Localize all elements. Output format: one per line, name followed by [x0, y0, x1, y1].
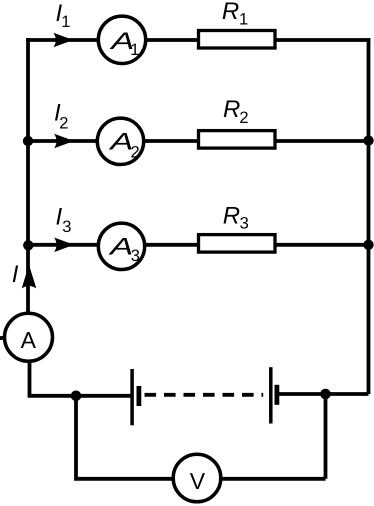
current arrow I1	[53, 33, 73, 48]
svg-text:R: R	[223, 202, 240, 229]
ammeter A3 circle	[98, 223, 144, 269]
label I2	[54, 100, 68, 133]
junction node B bottom left	[71, 391, 82, 402]
svg-text:2: 2	[59, 114, 68, 132]
label R3	[223, 202, 249, 232]
battery G left cell long plate	[130, 369, 134, 425]
svg-text:R: R	[222, 0, 239, 25]
battery G left cell short plate	[136, 386, 141, 406]
current arrow I2	[54, 134, 74, 149]
label R2	[223, 96, 249, 127]
resistor R2 body	[199, 131, 276, 149]
svg-text:3: 3	[131, 247, 140, 265]
svg-text:1: 1	[61, 13, 70, 31]
wire top rail branch1	[26, 38, 370, 42]
battery G right cell long plate	[269, 367, 273, 423]
ammeter A1 circle	[98, 16, 145, 63]
junction node branch2 left	[23, 136, 33, 146]
label I3	[56, 203, 72, 236]
label R1	[222, 0, 248, 28]
battery G right cell short plate	[274, 385, 279, 405]
wire battery right terminal to right bus	[277, 392, 369, 396]
svg-text:3: 3	[62, 218, 71, 236]
wire right vertical bus	[367, 38, 371, 394]
svg-text:1: 1	[239, 10, 248, 28]
ammeter A2 circle	[97, 118, 143, 164]
svg-text:3: 3	[240, 214, 249, 232]
svg-text:1: 1	[130, 41, 139, 59]
svg-text:R: R	[223, 96, 240, 123]
junction node branch3 right	[363, 240, 373, 250]
label I1	[56, 0, 71, 31]
wire voltmeter rail up to node C	[324, 394, 328, 479]
svg-text:A: A	[107, 233, 133, 260]
voltmeter V circle	[173, 454, 221, 502]
wire left vertical bus	[26, 38, 30, 316]
svg-text:V: V	[190, 468, 206, 494]
svg-text:2: 2	[131, 143, 140, 161]
label A3	[107, 233, 139, 265]
svg-text:I: I	[12, 261, 19, 288]
junction node branch3 left	[23, 240, 33, 250]
junction node branch2 right	[363, 135, 373, 145]
wire ammeter A to bottom-left corner	[30, 358, 134, 396]
resistor R1 body	[199, 31, 276, 49]
wire branch3 horizontal	[28, 243, 369, 247]
svg-text:2: 2	[239, 109, 248, 127]
ammeter A circle	[5, 313, 53, 361]
svg-text:A: A	[21, 327, 37, 353]
wire node B down to voltmeter rail	[76, 396, 326, 479]
label A1	[108, 28, 139, 59]
wire battery inter-cell dashed link	[145, 393, 264, 397]
wire branch2 horizontal	[28, 139, 369, 143]
current arrow I up	[22, 265, 37, 289]
current arrow I3	[54, 238, 74, 253]
label A2	[108, 128, 140, 161]
resistor R3 body	[199, 235, 276, 253]
wire stub at left edge into ammeter A	[0, 336, 6, 340]
junction node C bottom right	[320, 389, 331, 400]
